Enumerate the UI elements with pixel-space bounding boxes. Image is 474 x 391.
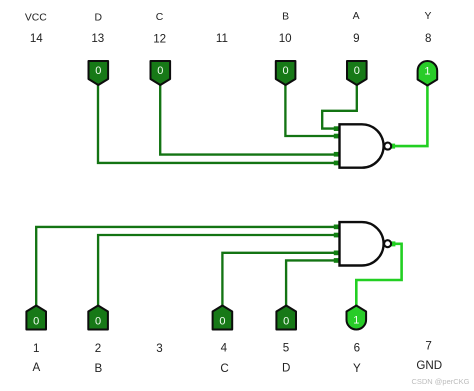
svg-text:1: 1 — [424, 65, 430, 77]
svg-text:12: 12 — [153, 32, 166, 45]
probe pin 9 value 0 — [347, 61, 367, 85]
wire pin 12 C to gate U1A input 3 — [160, 83, 339, 155]
NAND gate U1A — [340, 124, 392, 167]
svg-text:4: 4 — [221, 342, 228, 355]
probe pin 4 value 0 — [213, 306, 233, 330]
probe pin 6 value 1 — [347, 306, 367, 330]
svg-text:13: 13 — [91, 32, 104, 45]
wire pin 5 D to gate U1B input 4 — [286, 260, 339, 306]
svg-text:3: 3 — [156, 342, 162, 355]
svg-text:GND: GND — [416, 359, 442, 372]
svg-text:0: 0 — [219, 316, 225, 328]
probe pin 10 value 0 — [276, 61, 296, 85]
svg-text:9: 9 — [353, 32, 359, 45]
wire pin 10 B to gate U1A input 2 — [285, 83, 339, 136]
svg-text:0: 0 — [33, 316, 39, 328]
svg-text:11: 11 — [216, 32, 228, 45]
probe pin 1 value 0 — [26, 306, 46, 330]
svg-text:B: B — [282, 12, 289, 23]
svg-text:A: A — [353, 11, 360, 22]
svg-text:0: 0 — [95, 316, 101, 328]
svg-text:10: 10 — [279, 32, 292, 45]
wire pin 2 B to gate U1B input 2 — [98, 235, 339, 306]
svg-text:0: 0 — [354, 65, 360, 77]
wire pin 4 C to gate U1B input 3 — [222, 253, 339, 306]
svg-text:Y: Y — [425, 11, 432, 22]
gate U1B input pads — [334, 225, 340, 263]
svg-text:B: B — [95, 362, 103, 375]
svg-text:1: 1 — [353, 314, 359, 326]
svg-text:A: A — [33, 361, 41, 374]
wire gate U1B output to pin 6 Y (logic 1) — [356, 244, 401, 306]
svg-text:14: 14 — [30, 32, 43, 45]
svg-text:CSDN @perCKG: CSDN @perCKG — [411, 377, 469, 386]
svg-text:5: 5 — [283, 342, 289, 355]
svg-text:2: 2 — [95, 342, 101, 355]
svg-text:D: D — [282, 362, 290, 375]
wire pin 13 D to gate U1A input 4 — [98, 83, 339, 163]
svg-text:0: 0 — [283, 316, 289, 328]
svg-text:0: 0 — [157, 65, 163, 77]
svg-text:C: C — [156, 12, 164, 23]
svg-text:7: 7 — [425, 339, 431, 352]
svg-text:6: 6 — [354, 342, 360, 355]
svg-text:VCC: VCC — [25, 12, 47, 23]
probe pin 2 value 0 — [88, 306, 108, 330]
gate U1A input pads — [334, 126, 340, 165]
wire gate U1A output to pin 8 Y (logic 1) — [392, 84, 428, 146]
probe pin 13 value 0 — [89, 61, 109, 85]
probe pin 5 value 0 — [276, 306, 296, 330]
svg-text:1: 1 — [33, 342, 39, 355]
svg-text:0: 0 — [95, 65, 101, 77]
svg-text:Y: Y — [353, 362, 361, 375]
svg-text:D: D — [94, 12, 102, 23]
svg-text:0: 0 — [283, 65, 289, 77]
wire pin 1 A to gate U1B input 1 — [36, 227, 339, 306]
gate U1B output pad — [390, 241, 395, 246]
probe pin 12 value 0 — [151, 61, 171, 85]
wire pin 9 A to gate U1A input 1 (jog) — [322, 83, 357, 129]
probe pin 8 value 1 — [418, 61, 438, 85]
gate U1A output pad — [390, 144, 395, 149]
NAND gate U1B — [340, 222, 392, 265]
svg-text:8: 8 — [425, 32, 431, 45]
svg-text:C: C — [220, 362, 228, 375]
